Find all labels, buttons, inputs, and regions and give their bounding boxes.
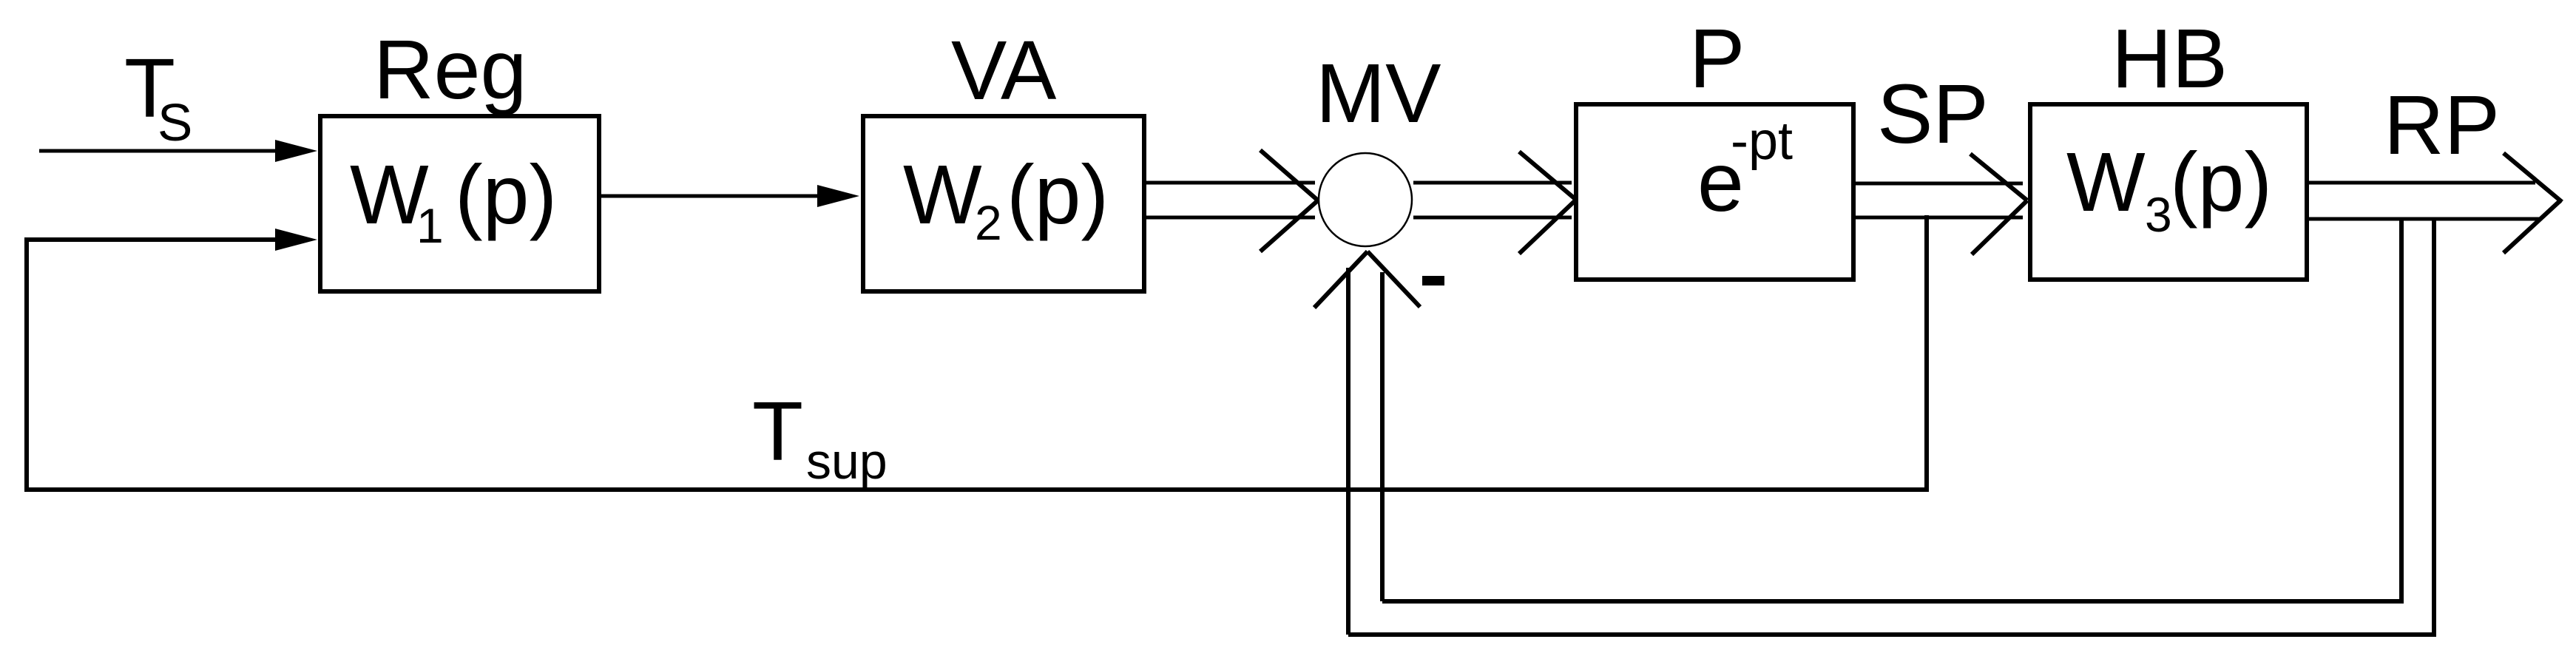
svg-text:3: 3	[2145, 187, 2172, 242]
svg-text:(p): (p)	[2170, 135, 2272, 229]
svg-text:HB: HB	[2112, 12, 2228, 105]
wire MV to P double line	[1413, 152, 1576, 254]
svg-text:1: 1	[416, 198, 444, 253]
wire HB output double line (RP) with open arrow	[2307, 153, 2562, 253]
block HB W3(p) box	[2030, 104, 2307, 280]
wire W2 to MV double line	[1144, 150, 1318, 251]
svg-text:(p): (p)	[455, 148, 557, 241]
svg-text:MV: MV	[1316, 47, 1441, 140]
svg-text:(p): (p)	[1007, 148, 1109, 241]
svg-text:W: W	[903, 148, 982, 241]
svg-text:T: T	[752, 385, 803, 478]
wire RP feedback inner loop	[1382, 219, 2401, 601]
node TS input label	[124, 41, 192, 152]
block Reg W1(p) box	[320, 116, 599, 291]
svg-text:S: S	[158, 94, 192, 152]
svg-text:2: 2	[975, 195, 1002, 250]
svg-text:P: P	[1689, 12, 1745, 105]
wire P to HB double line (SP)	[1853, 154, 2027, 254]
svg-text:RP: RP	[2384, 78, 2500, 172]
block P e-pt box	[1576, 104, 1853, 280]
svg-text:-pt: -pt	[1731, 112, 1793, 171]
wire TS input arrow	[39, 140, 317, 162]
wire MV bottom input double line with arrow	[1314, 251, 1420, 635]
svg-text:SP: SP	[1877, 67, 1989, 160]
node minus sign at MV	[1422, 276, 1444, 285]
node MV summing circle	[1319, 153, 1412, 246]
svg-text:Reg: Reg	[373, 23, 527, 116]
node Tsup label	[752, 385, 888, 490]
wire Tsup feedback into W1 (left vertical + arrow)	[27, 215, 1927, 490]
svg-text:W: W	[2066, 135, 2146, 229]
svg-text:sup: sup	[806, 433, 888, 490]
wire RP feedback outer loop	[1348, 219, 2434, 635]
svg-text:VA: VA	[951, 24, 1057, 117]
block VA W2(p) box	[863, 116, 1144, 291]
wire W1 to W2	[599, 185, 859, 207]
